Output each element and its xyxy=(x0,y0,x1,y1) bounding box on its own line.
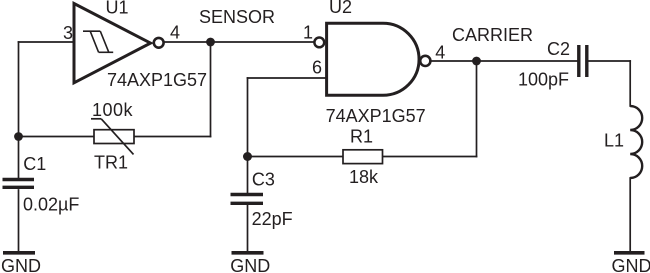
svg-text:18k: 18k xyxy=(349,167,379,187)
svg-text:100pF: 100pF xyxy=(518,70,569,90)
svg-text:U1: U1 xyxy=(106,0,129,17)
svg-text:1: 1 xyxy=(303,23,313,43)
svg-text:4: 4 xyxy=(435,43,445,63)
svg-text:U2: U2 xyxy=(329,0,352,17)
svg-text:4: 4 xyxy=(170,23,180,43)
svg-text:100k: 100k xyxy=(92,100,134,120)
svg-text:GND: GND xyxy=(1,256,41,273)
svg-text:0.02µF: 0.02µF xyxy=(23,195,79,215)
svg-text:GND: GND xyxy=(230,256,270,273)
svg-text:SENSOR: SENSOR xyxy=(199,7,275,27)
svg-text:L1: L1 xyxy=(604,131,624,151)
svg-text:6: 6 xyxy=(312,58,322,78)
svg-text:GND: GND xyxy=(612,256,650,273)
svg-text:3: 3 xyxy=(63,23,73,43)
svg-text:CARRIER: CARRIER xyxy=(452,25,533,45)
svg-text:74AXP1G57: 74AXP1G57 xyxy=(326,106,426,126)
svg-text:TR1: TR1 xyxy=(94,153,128,173)
svg-text:74AXP1G57: 74AXP1G57 xyxy=(107,70,207,90)
svg-text:C3: C3 xyxy=(252,169,275,189)
svg-text:22pF: 22pF xyxy=(252,209,293,229)
svg-text:R1: R1 xyxy=(350,127,373,147)
svg-text:C2: C2 xyxy=(547,39,570,59)
svg-text:C1: C1 xyxy=(23,154,46,174)
